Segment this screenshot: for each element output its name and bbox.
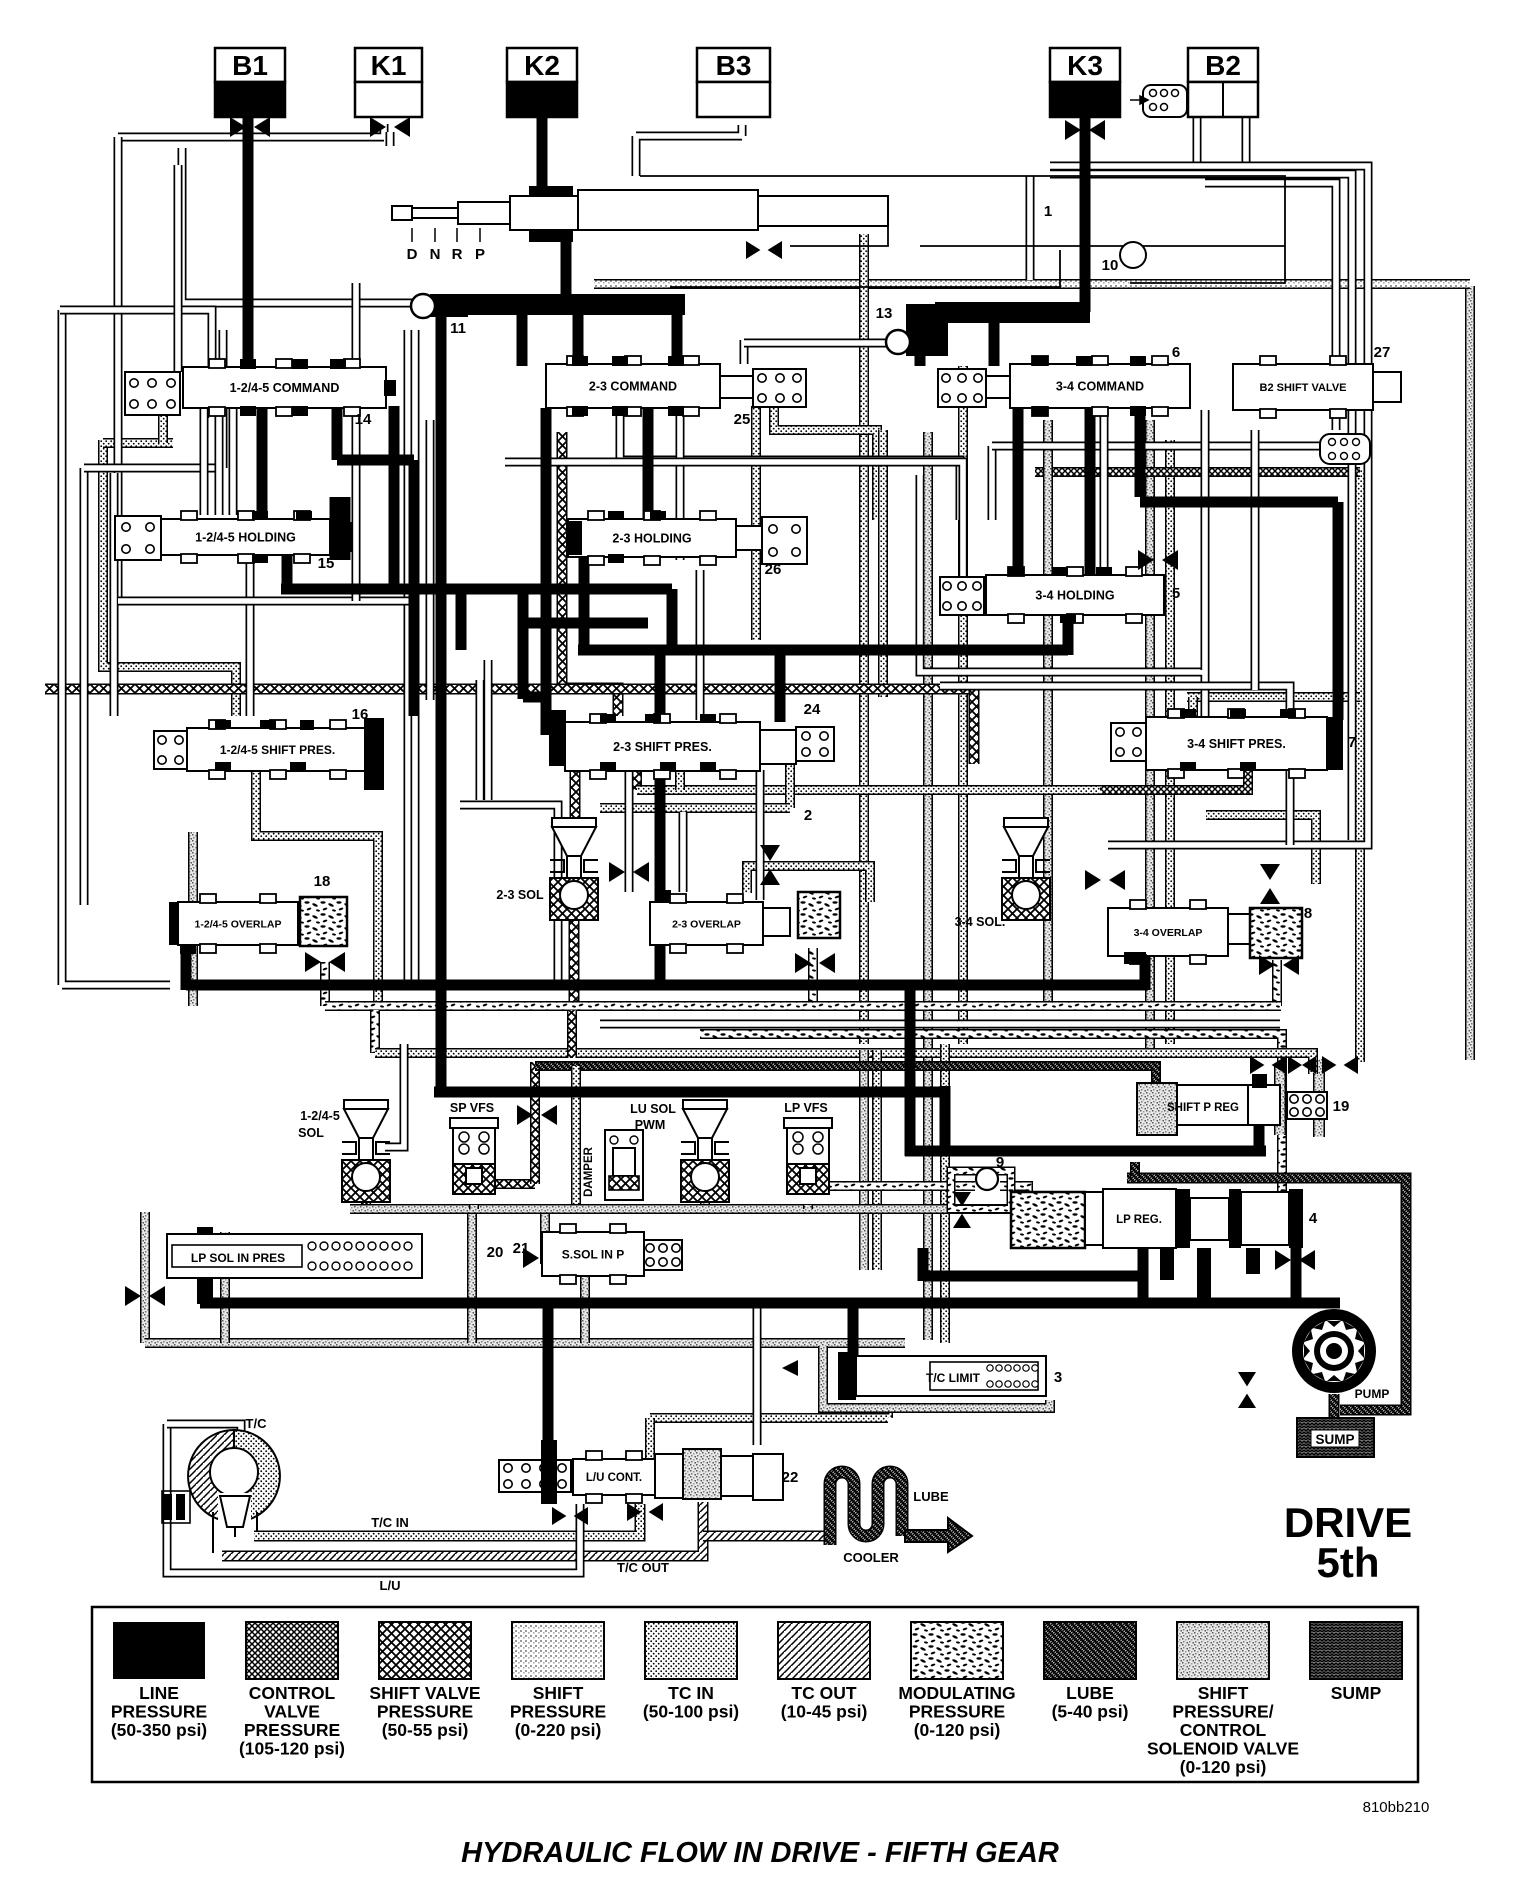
wire tc in channel <box>254 1504 640 1536</box>
wire mod lp vfs to j9 <box>827 1181 975 1191</box>
lp reg port a <box>1160 1248 1174 1280</box>
shift p reg top port <box>1252 1074 1267 1088</box>
legend swatch CONTROL <box>239 1622 345 1759</box>
wire riser x945 <box>940 1086 951 1156</box>
svg-text:LUBE: LUBE <box>1066 1683 1114 1703</box>
wire 3-4cmd drop x1090 <box>1085 406 1096 577</box>
wire thin x700 <box>696 570 705 720</box>
wire tc out channel <box>222 1502 703 1556</box>
svg-text:20: 20 <box>487 1244 504 1261</box>
clutch K3 <box>1050 48 1120 82</box>
modulating box lp reg <box>1011 1192 1085 1248</box>
svg-text:SHIFT: SHIFT <box>1198 1683 1249 1703</box>
svg-text:(0-120 psi): (0-120 psi) <box>1180 1757 1267 1777</box>
holding2 right connector <box>736 526 762 550</box>
wire mod j9 to box <box>1000 1186 1028 1200</box>
wire lube lp reg up <box>1130 1162 1140 1178</box>
wire line-pressure B1 drop <box>243 112 254 370</box>
clutch K1 <box>355 48 422 82</box>
wire line-pressure K2 drop <box>537 112 548 196</box>
wire line-pressure under manual valve <box>561 238 572 300</box>
svg-text:T/C IN: T/C IN <box>371 1515 409 1530</box>
wire mod riser overlap3 <box>1272 960 1282 1006</box>
wire spc x864 low <box>859 1050 869 1270</box>
wire line bus y589 <box>281 584 672 595</box>
solenoid 3-4 SOL <box>1002 818 1050 920</box>
restrictor below overlap2 <box>795 953 835 973</box>
legend swatch TC OUT <box>778 1622 870 1722</box>
wire dotted vertical x1360 <box>1355 470 1365 1062</box>
wire thin y686 right <box>940 686 1290 845</box>
restrictor right of 20 <box>523 1248 563 1268</box>
svg-text:TC IN: TC IN <box>668 1683 714 1703</box>
svg-text:B2 SHIFT VALVE: B2 SHIFT VALVE <box>1260 382 1347 394</box>
svg-text:T/C LIMIT: T/C LIMIT <box>926 1371 981 1385</box>
wire thin B2 inner channel <box>1205 183 1336 430</box>
clutch B1 <box>215 48 285 82</box>
wire thin cmd1-holding b <box>215 408 224 515</box>
wire riser x923 <box>918 1248 929 1281</box>
svg-text:(10-45 psi): (10-45 psi) <box>781 1702 868 1722</box>
wire drop to 3-4 command b <box>915 352 926 366</box>
wire thin y462 <box>505 462 963 585</box>
wire thin B2 drop1 <box>1193 117 1202 166</box>
svg-text:5: 5 <box>1172 585 1180 602</box>
restrictor right of sp vfs <box>517 1105 557 1125</box>
wire thin B3 tail <box>636 125 742 176</box>
wire spc lu sol drop <box>700 1196 710 1209</box>
spring box shift p reg <box>1287 1092 1327 1119</box>
wire spc around tc limit <box>823 1346 1050 1408</box>
svg-text:25: 25 <box>734 411 751 428</box>
svg-text:L/U: L/U <box>380 1578 401 1593</box>
wire 3-4cmd down <box>1135 406 1146 497</box>
svg-text:SHIFT VALVE: SHIFT VALVE <box>369 1683 480 1703</box>
pump <box>1292 1309 1376 1393</box>
junction 11 <box>430 294 468 317</box>
svg-text:16: 16 <box>352 706 369 723</box>
svg-text:(0-220 psi): (0-220 psi) <box>515 1720 602 1740</box>
wire junction13 horizontal <box>935 302 1090 323</box>
wire thin x1030 outline drop <box>1026 176 1035 280</box>
wire thin left tall1 <box>80 468 89 905</box>
wire dotted cmd1 spring stub <box>158 412 168 443</box>
legend swatch SHIFT VALVE <box>369 1622 480 1740</box>
wire drop to 2-3 command <box>573 312 584 366</box>
wire holding1 right up <box>332 407 343 460</box>
wire riser x672 <box>667 589 678 655</box>
svg-text:7: 7 <box>1348 734 1356 751</box>
svg-text:2: 2 <box>804 807 812 824</box>
wire hatch below 2-3 sol <box>569 920 580 1006</box>
svg-text:(105-120 psi): (105-120 psi) <box>239 1739 345 1759</box>
svg-text:(50-350 psi): (50-350 psi) <box>111 1720 207 1740</box>
wire thin to b2 solenoid <box>992 442 1327 451</box>
wire thin left top <box>84 330 223 468</box>
wire tc out to cooler <box>703 1531 836 1542</box>
wire thin tc box <box>167 1424 241 1459</box>
wire dotted drop b <box>785 758 795 808</box>
wire drop to L/U cont <box>543 1303 554 1444</box>
svg-text:PRESSURE/: PRESSURE/ <box>1172 1702 1273 1722</box>
wire branch x414 <box>409 460 420 716</box>
svg-text:13: 13 <box>876 305 893 322</box>
wire dotted bus y1053 <box>375 1053 1313 1074</box>
wire junction11 horizontal <box>430 294 685 315</box>
svg-text:1-2/4-5 COMMAND: 1-2/4-5 COMMAND <box>230 381 340 395</box>
svg-text:PRESSURE: PRESSURE <box>244 1720 340 1740</box>
wire sp vfs base <box>469 1205 479 1209</box>
wire cmd1 to holding1 <box>257 406 268 520</box>
valve LP SOL IN PRES <box>167 1234 422 1278</box>
wire spc s.sol left <box>540 1209 550 1264</box>
wire thin x683 <box>679 812 688 892</box>
restrictor below lu cont b <box>627 1503 663 1521</box>
manual selector valve 1 <box>392 190 888 230</box>
wire dotted bus y1418 <box>650 1413 888 1423</box>
wire dotted loop at 2 <box>747 866 870 902</box>
sp1 right T cap <box>364 718 384 790</box>
valve s.sol in p <box>542 1224 644 1284</box>
svg-text:PRESSURE: PRESSURE <box>510 1702 606 1722</box>
wire thin left x118 <box>114 137 123 601</box>
svg-text:9: 9 <box>996 1154 1004 1171</box>
svg-text:19: 19 <box>1333 1098 1350 1115</box>
restrictor below overlap3 <box>1259 955 1299 975</box>
valve 2-3 overlap <box>650 894 763 953</box>
svg-text:18: 18 <box>314 873 331 890</box>
valve 3-4 holding <box>986 567 1164 623</box>
valve 3-4 command <box>1010 356 1190 416</box>
valve symbol under K3 <box>1065 120 1105 140</box>
svg-text:810bb210: 810bb210 <box>1363 1799 1430 1816</box>
wire line bus y1151 <box>905 1146 1266 1157</box>
junction 9 <box>976 1168 998 1190</box>
legend box <box>92 1607 1418 1782</box>
legend swatch SHIFT <box>1147 1622 1299 1777</box>
B2 divider <box>1222 82 1224 117</box>
solenoid 1-2/4-5 SOL <box>342 1100 390 1202</box>
wire lube pump-sump <box>1329 1394 1340 1420</box>
wire thin drop near t/c limit <box>753 1306 762 1445</box>
legend swatch LUBE <box>1044 1622 1136 1722</box>
spring box cmd2 <box>753 369 806 407</box>
svg-text:11: 11 <box>450 320 466 337</box>
wire lp reg down a <box>1138 1248 1149 1308</box>
overlap1 left cap <box>169 902 178 945</box>
overlap3 bottom port <box>1124 952 1146 964</box>
wire thin y672 right <box>920 475 1205 720</box>
spring box 24 <box>796 727 834 761</box>
wire thin B2 middle channel <box>1050 174 1352 840</box>
svg-text:P: P <box>475 246 485 263</box>
svg-text:26: 26 <box>765 561 782 578</box>
svg-text:3: 3 <box>1054 1369 1062 1386</box>
wire dotted left loop <box>103 440 236 716</box>
restrictor on manual valve <box>746 241 782 259</box>
wire overlap1 to bus <box>181 942 192 990</box>
wire sv hatch to 2-3 sol <box>570 770 581 828</box>
wire line-pressure K3 drop <box>1080 112 1091 312</box>
valve 3-4 shift pres <box>1146 709 1327 778</box>
wire sp vfs link <box>496 1179 535 1189</box>
wire riser x461 <box>456 589 467 650</box>
wire line bus y1303 <box>200 1298 1340 1309</box>
wire spc bus y1209 <box>350 1204 1135 1214</box>
wire holding1 bottom drop <box>282 552 293 594</box>
wire dotted x756 <box>751 406 761 640</box>
wire spc riser x472 <box>467 1205 477 1343</box>
wire drop to 2-3 command right <box>672 312 683 366</box>
wire vertical x660 <box>655 650 666 985</box>
wire thin B2 drop2 <box>1242 117 1251 166</box>
holding2 left cap <box>568 521 582 555</box>
wire thick y502 <box>1140 497 1338 508</box>
svg-text:L/U CONT.: L/U CONT. <box>586 1472 642 1484</box>
legend swatch MODULATING <box>898 1622 1015 1740</box>
wire 2-3cmd drop x546 <box>541 408 552 735</box>
wire spc lp sol drop <box>220 1232 230 1343</box>
sp3 black cap 7 <box>1327 717 1343 770</box>
wire line bus y985 <box>186 980 1148 991</box>
svg-text:T/C: T/C <box>246 1416 268 1431</box>
lp reg port c <box>1246 1248 1260 1274</box>
wire lp vfs base <box>803 1205 813 1209</box>
lu cont center port <box>541 1449 557 1503</box>
svg-text:3-4 SHIFT PRES.: 3-4 SHIFT PRES. <box>1187 737 1286 751</box>
lp reg port b <box>1197 1248 1211 1306</box>
manual valve black block <box>529 186 573 242</box>
shift p reg left hatch <box>1137 1083 1177 1135</box>
wire dotted under cmd1 spring <box>103 438 173 448</box>
wire thin x1255 <box>1251 430 1260 690</box>
svg-text:K1: K1 <box>371 50 407 81</box>
wire spc column shift p reg b <box>1313 1059 1325 1137</box>
wire thin y1024 <box>600 1020 1280 1029</box>
svg-text:CONTROL: CONTROL <box>1180 1720 1267 1740</box>
wire spc vertical x928 <box>923 432 933 1340</box>
wire spc left x193 <box>188 832 198 1006</box>
svg-text:(0-120 psi): (0-120 psi) <box>914 1720 1001 1740</box>
svg-text:S.SOL IN P: S.SOL IN P <box>562 1247 624 1261</box>
wire dotted bus y808 <box>600 803 790 813</box>
wire spc left U vertical <box>140 1212 150 1343</box>
wire shift p reg drop <box>1254 1122 1265 1151</box>
wire spc column shift p reg a <box>1274 1064 1286 1135</box>
svg-text:8: 8 <box>1304 905 1312 922</box>
svg-text:SUMP: SUMP <box>1331 1683 1382 1703</box>
svg-text:CONTROL: CONTROL <box>249 1683 336 1703</box>
wire thin cmd1-holding a <box>200 408 209 515</box>
valve 3-4 overlap <box>1108 900 1228 964</box>
spring box holding1 <box>115 516 161 560</box>
valve B2 shift <box>1233 356 1373 418</box>
svg-text:LU SOL: LU SOL <box>630 1102 676 1116</box>
wire thin left tall2 <box>110 473 119 716</box>
svg-text:N: N <box>430 246 441 263</box>
wire crosshatch bus y472 <box>1035 467 1360 477</box>
wire thin elbow to bus <box>460 805 558 983</box>
wire thin x629 <box>625 758 634 892</box>
wire dotted x877 low <box>872 1050 882 1270</box>
svg-text:(50-55 psi): (50-55 psi) <box>382 1720 469 1740</box>
wire dotted into lu cont <box>645 1418 655 1462</box>
svg-text:SUMP: SUMP <box>1315 1432 1354 1447</box>
holding1 black cap <box>330 522 352 552</box>
svg-text:R: R <box>452 246 463 263</box>
wire line bus y1276 <box>923 1271 1145 1282</box>
svg-text:B1: B1 <box>232 50 268 81</box>
svg-text:PUMP: PUMP <box>1355 1387 1390 1401</box>
svg-text:D: D <box>407 246 418 263</box>
wire riser 3-4 holding <box>1063 600 1074 655</box>
svg-text:10: 10 <box>1102 257 1119 274</box>
svg-text:SP VFS: SP VFS <box>450 1101 494 1115</box>
wire thin cmd1 spring drop <box>174 165 183 372</box>
svg-text:3-4 COMMAND: 3-4 COMMAND <box>1056 380 1144 394</box>
svg-text:DAMPER: DAMPER <box>583 1146 595 1197</box>
clutch B2 <box>1188 48 1258 82</box>
lp sol bottom port <box>197 1268 213 1304</box>
wire dotted bus y790 <box>637 785 1100 795</box>
svg-text:1-2/4-5 SHIFT PRES.: 1-2/4-5 SHIFT PRES. <box>220 743 335 757</box>
wire dotted sp1 to mod bus <box>256 771 378 1006</box>
clutch B3 <box>697 48 770 82</box>
svg-text:15: 15 <box>318 555 335 572</box>
svg-text:PRESSURE: PRESSURE <box>111 1702 207 1722</box>
wire thin y601 <box>118 597 412 606</box>
wire thin x356 <box>352 283 361 601</box>
svg-text:14: 14 <box>355 411 372 428</box>
spring box s sol <box>644 1240 682 1270</box>
wire thin x760 <box>756 770 765 900</box>
svg-text:(5-40 psi): (5-40 psi) <box>1052 1702 1129 1722</box>
svg-text:SHIFT: SHIFT <box>533 1683 584 1703</box>
junction13 block <box>906 304 948 356</box>
svg-text:SOLENOID VALVE: SOLENOID VALVE <box>1147 1739 1299 1759</box>
valve symbol under K1 <box>370 117 410 137</box>
wire elbow y460 <box>337 455 414 466</box>
wire lube bus y1066 <box>535 1066 1156 1092</box>
svg-text:PWM: PWM <box>635 1118 666 1132</box>
wire elbow x523 <box>523 692 546 703</box>
wire dotted damper drop <box>571 1066 581 1209</box>
svg-text:1: 1 <box>1044 203 1052 220</box>
svg-text:22: 22 <box>782 1469 799 1486</box>
svg-text:1-2/4-5 HOLDING: 1-2/4-5 HOLDING <box>195 531 296 545</box>
wire dotted x883 <box>878 430 888 697</box>
svg-text:1-2/4-5: 1-2/4-5 <box>300 1109 340 1123</box>
B2 solenoid <box>1130 85 1187 117</box>
wire thin L/U line <box>167 1424 580 1573</box>
wire thin to sol1 <box>385 1044 404 1147</box>
valve 1-2/4-5 holding <box>161 511 330 563</box>
svg-text:TC OUT: TC OUT <box>791 1683 856 1703</box>
svg-text:PRESSURE: PRESSURE <box>377 1702 473 1722</box>
wire lp reg cap drop <box>1291 1248 1302 1300</box>
valve LP REG <box>1085 1189 1303 1248</box>
wire thin x1104 <box>1100 410 1109 570</box>
wire dotted bus y697 right <box>1187 692 1360 702</box>
svg-text:LUBE: LUBE <box>913 1489 949 1504</box>
b2 shift valve solenoid <box>1320 434 1370 464</box>
legend swatch SUMP <box>1310 1622 1402 1703</box>
wire dotted vertical x963 <box>958 366 968 1044</box>
wire thin 2-3cmd up <box>740 340 749 364</box>
wire sv vertical x535 <box>530 1062 540 1184</box>
wire cooler coil <box>830 1472 902 1545</box>
wire thin cmd2-holding2 <box>620 408 960 520</box>
wire thin to K1 <box>118 124 384 137</box>
wire 2-3cmd drop x648 <box>643 406 654 521</box>
wire thin left loop2 <box>60 310 212 418</box>
svg-text:K2: K2 <box>524 50 560 81</box>
spring box lu cont <box>499 1460 571 1492</box>
lp sol top port <box>197 1227 213 1244</box>
spring box cmd3 <box>938 369 986 407</box>
wire sol1 base drop <box>361 1196 371 1209</box>
wire spc s.sol drop <box>580 1262 590 1343</box>
wire line bus y1092 <box>434 1087 950 1098</box>
svg-text:SHIFT P REG: SHIFT P REG <box>1167 1102 1239 1114</box>
wire riser 2-3 sp <box>775 647 786 722</box>
svg-text:LP REG.: LP REG. <box>1116 1214 1162 1226</box>
wire sv hatch 2-3 cmd to sp <box>562 432 618 716</box>
wire cmd1 drop x394 <box>389 406 400 594</box>
svg-text:4: 4 <box>1309 1210 1318 1227</box>
wire holding1 right L <box>330 497 351 560</box>
svg-text:LP SOL IN PRES: LP SOL IN PRES <box>191 1251 285 1265</box>
wire L/U cont terminal <box>541 1440 557 1504</box>
wire dotted vertical x1170 <box>1165 440 1175 1044</box>
wire dotted tclimit drop <box>883 1404 893 1418</box>
check above overlap3 <box>1260 864 1280 904</box>
wire thin x992 <box>988 446 997 520</box>
valve 2-3 holding <box>568 511 736 565</box>
restrictor above shift p reg a <box>1250 1056 1286 1074</box>
svg-text:1-2/4-5 OVERLAP: 1-2/4-5 OVERLAP <box>195 918 282 930</box>
wire riser x523 <box>518 589 529 699</box>
svg-text:6: 6 <box>1172 344 1180 361</box>
restrictor above 3-4 overlap <box>1085 870 1125 890</box>
wire dotted riser x945 <box>940 1044 950 1343</box>
valve 1-2/4-5 shift pres <box>187 720 368 779</box>
spring box sp1 <box>154 731 187 769</box>
wire gray bus y284 <box>594 279 1470 289</box>
svg-text:LP VFS: LP VFS <box>784 1101 828 1115</box>
wire mod loop j9 <box>951 1171 1011 1209</box>
svg-text:2-3 SHIFT PRES.: 2-3 SHIFT PRES. <box>613 740 712 754</box>
wire thin x1205 <box>1201 410 1210 670</box>
check above overlap2 <box>760 845 780 885</box>
wire drop2 to 2-3 command <box>517 312 528 366</box>
wire thin x415 <box>411 330 420 985</box>
spring box overlap1 speckled <box>300 897 347 946</box>
restrictor above 2-3 overlap <box>609 862 649 882</box>
svg-text:B3: B3 <box>716 50 752 81</box>
valve L/U cont <box>573 1451 655 1503</box>
wire spc vertical x1048 <box>1043 420 1053 1006</box>
valve 1-2/4-5 overlap <box>178 894 298 953</box>
lube arrow out <box>905 1518 972 1552</box>
svg-text:SOL: SOL <box>298 1126 324 1140</box>
wire line bus y650 <box>578 645 1068 656</box>
restrictor below overlap1 <box>305 952 345 972</box>
wire thin x430 <box>426 420 435 700</box>
restrictor above 3-4 holding <box>1138 550 1178 570</box>
svg-text:K3: K3 <box>1067 50 1103 81</box>
wire mod riser overlap2 <box>808 948 818 1006</box>
